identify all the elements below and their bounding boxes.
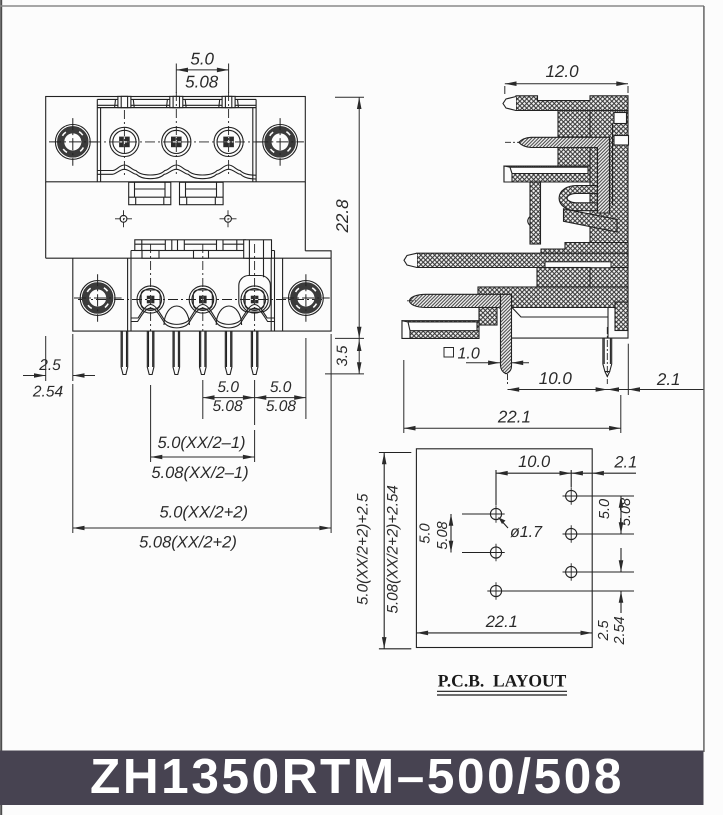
centerline vertical pole2 bbox=[175, 92, 177, 177]
right 5.0/5.08 ticks bbox=[579, 496, 634, 534]
pin1 center dash bbox=[505, 141, 520, 143]
lower mounting hole left bbox=[74, 274, 122, 322]
block under arm2 bbox=[537, 268, 590, 288]
svg-text:5.0: 5.0 bbox=[597, 499, 613, 519]
left 5.0/5.08 dim line bbox=[450, 514, 452, 553]
solder pin 2 bbox=[147, 331, 154, 374]
middle plate right edge bbox=[304, 182, 306, 251]
lower block left wall bbox=[128, 258, 131, 331]
page frame left border bbox=[0, 0, 2, 815]
dim 22.8 arrows bbox=[357, 97, 362, 338]
lower centerline horizontal bbox=[78, 299, 325, 301]
center mark right bbox=[220, 210, 237, 227]
lower centerline vertical pole2 bbox=[202, 244, 204, 331]
lower top tabs band bbox=[135, 240, 246, 251]
lower pin circle pole2 bbox=[189, 286, 216, 313]
solder pin 4 bbox=[200, 331, 207, 374]
lower mounting hole right bbox=[282, 274, 330, 322]
svg-text:5.08: 5.08 bbox=[435, 521, 451, 549]
pin circle pole1 bbox=[110, 127, 139, 156]
lower band base line bbox=[131, 251, 275, 259]
svg-text:5.08: 5.08 bbox=[266, 398, 297, 415]
pin2 leg inner line bbox=[500, 294, 502, 307]
svg-text:10.0: 10.0 bbox=[518, 453, 551, 471]
svg-text:5.0(XX/2–1): 5.0(XX/2–1) bbox=[157, 434, 245, 452]
hole left 2 bbox=[487, 544, 504, 561]
socket arm 1 white slot bbox=[506, 167, 588, 173]
socket arm 2 hatched bbox=[402, 321, 479, 339]
band above flange bbox=[478, 287, 628, 308]
svg-text:5.08: 5.08 bbox=[185, 72, 219, 91]
hole left 3 bbox=[487, 582, 504, 599]
dim 22.1 arrows bbox=[404, 426, 621, 431]
lower hat stems bbox=[249, 258, 263, 277]
left overall dim line bbox=[383, 453, 385, 649]
right pin tip point bbox=[605, 372, 610, 377]
dome arch between pole2-3 bbox=[216, 306, 241, 325]
right 2.5/2.54 ticks bbox=[504, 572, 634, 591]
dim 12.0 line bbox=[505, 83, 628, 85]
dim 5.0/5.08 top line bbox=[176, 69, 228, 71]
flange side white body bbox=[509, 308, 628, 339]
svg-text:22.8: 22.8 bbox=[333, 199, 352, 234]
dim 3.5 tick bbox=[325, 373, 364, 375]
metal pin 2 (lower) hatched: horizontal + bend + leg bbox=[410, 294, 512, 374]
bottom right slab block bbox=[615, 302, 628, 331]
svg-text:2.5: 2.5 bbox=[38, 357, 61, 374]
svg-text:10.0: 10.0 bbox=[539, 369, 573, 388]
second plug arm tip bbox=[404, 253, 417, 267]
right slab white notch top bbox=[614, 113, 627, 124]
svg-text:5.08: 5.08 bbox=[618, 498, 634, 526]
solder pin 1 bbox=[121, 331, 128, 374]
dim 10.0/2.1 line bbox=[508, 389, 704, 391]
upper rail bottom lines bbox=[97, 104, 256, 106]
dim 5.0/5.08 top arrows bbox=[176, 68, 228, 73]
lower tab feet bbox=[142, 251, 262, 259]
right 2.5/2.54 dim lines outside arrows bbox=[620, 548, 622, 613]
dim 22.1 line bbox=[404, 427, 621, 429]
dim 5.0(XX/2-1) ext lines bbox=[151, 385, 255, 462]
upper tab pole3 bbox=[219, 96, 239, 107]
solder pin 3 bbox=[173, 331, 180, 374]
dim 3.5 line + arrows bbox=[358, 338, 360, 374]
dim 10.0 arrows bbox=[508, 387, 641, 392]
right pin centerline bbox=[606, 327, 608, 384]
dim 5.0(XX/2+2) ext lines bbox=[73, 334, 331, 533]
page frame right border bbox=[703, 6, 705, 752]
socket arm2 tip bbox=[402, 321, 410, 339]
dim 5.0 pair arrows bbox=[203, 395, 306, 400]
leader o1.7 bbox=[499, 518, 509, 529]
svg-text:P.C.B. LAYOUT: P.C.B. LAYOUT bbox=[438, 671, 567, 691]
pin circle pole2 bbox=[162, 127, 191, 156]
dim 22.1 pcb line bbox=[416, 632, 592, 634]
svg-text:5.08: 5.08 bbox=[213, 398, 244, 415]
svg-text:ZH1350RTM–500/508: ZH1350RTM–500/508 bbox=[90, 749, 624, 804]
dim 10.0 / 2.1 ext line right bbox=[627, 344, 629, 395]
left overall dim ticks bbox=[379, 453, 411, 649]
second plug arm hatched bbox=[417, 253, 628, 267]
strip bump bbox=[528, 217, 530, 226]
lower pin circle pole3 bbox=[241, 286, 268, 313]
dim 5.0(XX/2+2) line + arrows bbox=[73, 527, 331, 529]
dim 22.8 line bbox=[358, 97, 360, 338]
socket arm 2 white slot bbox=[404, 322, 477, 331]
slanted band below hook bbox=[564, 209, 618, 232]
lower wavy line double bbox=[131, 305, 275, 325]
upper mounting hole left bbox=[49, 118, 97, 166]
svg-text:22.1: 22.1 bbox=[485, 613, 518, 631]
bottom mass of mid zone bbox=[541, 243, 628, 259]
svg-text:5.0(XX/2+2)+2.5: 5.0(XX/2+2)+2.5 bbox=[355, 493, 372, 605]
lower centerline vertical pole3 bbox=[254, 244, 256, 331]
hole right 3 bbox=[563, 563, 580, 580]
right 5.0/5.08 dim line bbox=[620, 496, 622, 534]
upper rail top line bbox=[97, 98, 256, 100]
pin2 leg bottom centerline bbox=[507, 374, 509, 384]
pcb outline rect bbox=[416, 449, 592, 648]
PCB layout double underline bbox=[437, 691, 567, 695]
centerline vertical pole3 bbox=[228, 92, 230, 177]
lower centerline vertical pole1 bbox=[150, 244, 152, 331]
housing block under top arm bbox=[558, 111, 590, 138]
solder pin 5 bbox=[225, 331, 232, 374]
svg-text:5.08(XX/2–1): 5.08(XX/2–1) bbox=[151, 464, 248, 482]
dome arch between pole1-2 bbox=[164, 306, 189, 325]
socket arm 1 hatched bbox=[504, 166, 590, 182]
pin2 center dash bbox=[407, 300, 416, 302]
left vertical strip bbox=[530, 182, 541, 244]
housing top arm tip (white chamfer) bbox=[503, 97, 516, 111]
pin circle pole3 bbox=[214, 127, 243, 156]
contact cavity hook (stroked U with pattern) bbox=[563, 190, 599, 207]
metal pin 1 (upper) hatched bbox=[519, 137, 610, 213]
svg-text:2.5: 2.5 bbox=[596, 619, 612, 641]
upper tab pole1 bbox=[115, 96, 135, 107]
dim 2.5/2.54 line + outside arrows bbox=[23, 375, 95, 377]
right slab white notch at pin level bbox=[614, 136, 629, 146]
latch block 2 bbox=[180, 182, 224, 204]
svg-text:1.0: 1.0 bbox=[458, 346, 480, 363]
left 5.0/5.08 ticks bbox=[462, 514, 488, 553]
right straight pin bbox=[603, 338, 612, 371]
lower tab 3 tall piece bbox=[244, 240, 272, 258]
upper block left wall bbox=[97, 99, 100, 182]
dim 22.1 ext lines bbox=[404, 360, 621, 433]
dim 2.5/2.54 extension lines bbox=[46, 334, 73, 381]
dim 10.0 line pcb bbox=[496, 472, 636, 474]
socket arm1 tip chamfer bbox=[504, 166, 512, 182]
lower pin circle pole1 bbox=[137, 286, 164, 313]
svg-text:5.0: 5.0 bbox=[190, 50, 214, 69]
svg-text:2.1: 2.1 bbox=[656, 370, 681, 389]
leader line for 1.0 bbox=[466, 362, 529, 364]
svg-text:5.0: 5.0 bbox=[270, 379, 292, 396]
dim 5.0 pair extension lines bbox=[203, 338, 306, 425]
page frame top border bbox=[0, 5, 704, 7]
dim 12.0 arrows bbox=[505, 81, 628, 86]
svg-text:5.0: 5.0 bbox=[418, 523, 434, 543]
upper mounting hole right bbox=[256, 118, 304, 166]
housing block under pin1 bbox=[558, 148, 590, 167]
center mark left bbox=[115, 210, 132, 227]
lower block right wall bbox=[271, 258, 282, 331]
dim 10.0 ext lines from holes bbox=[496, 470, 571, 505]
upper block right wall bbox=[253, 99, 256, 182]
housing top arm hatched bbox=[516, 96, 628, 111]
right slab inner line bbox=[612, 124, 614, 206]
dim 5.0/5.08 top extension lines bbox=[176, 64, 228, 94]
square 1.0 symbol bbox=[444, 348, 454, 358]
svg-text:ø1.7: ø1.7 bbox=[510, 524, 543, 541]
lower flange outline bbox=[46, 258, 331, 331]
svg-text:3.5: 3.5 bbox=[334, 345, 351, 367]
housing right slab bbox=[590, 111, 628, 303]
svg-text:2.54: 2.54 bbox=[612, 616, 628, 645]
flange chamfer lines bbox=[512, 308, 608, 339]
plastic square at bend bbox=[479, 308, 497, 326]
svg-text:5.0: 5.0 bbox=[217, 379, 239, 396]
keyhole around lower pole3 bbox=[239, 276, 271, 313]
upper flange outer rectangle bbox=[46, 97, 306, 182]
centerline horizontal upper pins bbox=[91, 141, 262, 143]
hole right 1 bbox=[563, 487, 580, 504]
arm2 white slot right part bbox=[545, 262, 611, 268]
svg-text:2.54: 2.54 bbox=[32, 384, 64, 401]
svg-text:12.0: 12.0 bbox=[545, 62, 579, 81]
dim 22.8 ticks bbox=[335, 97, 364, 338]
bottom banner bbox=[0, 751, 704, 806]
svg-text:2.1: 2.1 bbox=[613, 454, 637, 472]
middle plate left edge bbox=[45, 182, 47, 258]
latch block 1 bbox=[129, 182, 171, 204]
dim 10.0 pcb arrows bbox=[496, 471, 604, 476]
dim 12.0 ext lines bbox=[505, 86, 628, 94]
centerline vertical pole1 bbox=[123, 110, 125, 177]
svg-text:5.0(XX/2+2): 5.0(XX/2+2) bbox=[159, 504, 248, 522]
svg-text:22.1: 22.1 bbox=[497, 408, 531, 427]
upper tab pole2 bbox=[167, 96, 187, 107]
dim 5.0(XX/2-1) line + arrows bbox=[151, 456, 255, 458]
dim 5.0 pair line bbox=[203, 397, 306, 399]
upper wavy line (double) bbox=[97, 165, 256, 175]
svg-text:5.08(XX/2+2)+2.54: 5.08(XX/2+2)+2.54 bbox=[385, 485, 402, 613]
middle plate step right bbox=[305, 251, 331, 258]
hole right 2 bbox=[563, 525, 580, 542]
svg-text:5.08(XX/2+2): 5.08(XX/2+2) bbox=[139, 534, 237, 552]
hole left 1 bbox=[487, 505, 504, 522]
solder pin 6 bbox=[251, 331, 258, 374]
